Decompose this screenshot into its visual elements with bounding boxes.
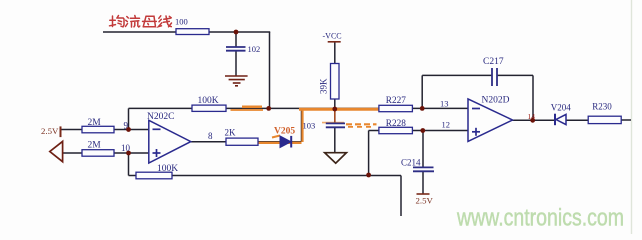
svg-text:C214: C214 <box>401 157 421 167</box>
svg-text:13: 13 <box>440 98 449 108</box>
svg-text:N202D: N202D <box>482 95 510 105</box>
svg-text:2M: 2M <box>88 118 102 128</box>
svg-text:V205: V205 <box>274 127 295 137</box>
svg-text:2M: 2M <box>88 141 102 151</box>
svg-text:C217: C217 <box>483 57 504 67</box>
svg-text:12: 12 <box>442 119 451 129</box>
svg-text:9: 9 <box>124 121 129 131</box>
svg-text:2.5V: 2.5V <box>416 195 434 205</box>
svg-text:2K: 2K <box>225 128 237 138</box>
svg-text:www.cntronics.com: www.cntronics.com <box>456 205 624 232</box>
svg-text:103: 103 <box>303 121 316 131</box>
svg-text:100K: 100K <box>198 96 219 106</box>
svg-text:R228: R228 <box>386 119 406 129</box>
svg-text:R227: R227 <box>386 96 406 106</box>
svg-text:V204: V204 <box>551 103 571 113</box>
svg-text:-VCC: -VCC <box>323 31 342 40</box>
svg-text:8: 8 <box>208 131 213 141</box>
svg-text:N202C: N202C <box>147 112 174 122</box>
svg-text:102: 102 <box>248 44 261 54</box>
svg-text:R230: R230 <box>592 101 612 111</box>
svg-text:10: 10 <box>121 143 131 153</box>
svg-text:100: 100 <box>175 17 188 27</box>
svg-text:14: 14 <box>528 112 536 121</box>
svg-text:39K: 39K <box>319 78 329 94</box>
svg-text:100K: 100K <box>157 164 178 174</box>
svg-text:2.5V: 2.5V <box>41 126 59 136</box>
